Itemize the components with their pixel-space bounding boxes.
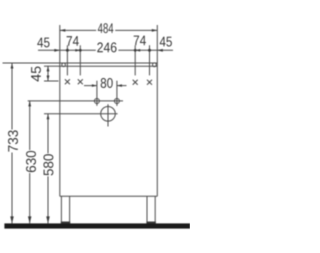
45 vertical top reference line [44,65,60,67]
drain circle [101,107,116,122]
630 label (rotated) [26,151,36,172]
45 vertical top arrow [47,66,50,72]
630 label background [25,150,37,173]
580 bottom arrow [46,216,50,223]
45 vertical bottom reference line [44,80,59,82]
246 label [97,42,116,52]
580 top arrow [47,114,50,120]
mounting cross left inner [78,79,83,84]
484 label [98,23,114,33]
246 label background [96,42,119,53]
tap hole right vertical axis [116,81,118,106]
mounting cross right inner [133,80,138,85]
80 label background [100,78,113,89]
cabinet left edge with extension line [59,25,61,196]
left leg outer line [60,196,62,223]
tap hole left vertical axis [96,81,98,106]
80 right arrow [117,84,122,87]
right corner fixing circle [153,63,157,67]
row2 arrow at right cabinet edge [157,49,163,52]
row2 tick dot 1 [66,49,69,52]
733 label background [7,130,19,153]
484 dimension line [60,29,158,31]
45 right label [160,37,172,47]
733 top arrow [11,63,14,69]
row2 arrow at left cabinet edge [54,49,60,52]
tap hole right circle [114,99,119,104]
45 left label [37,38,49,48]
45 vertical dimension line [47,66,49,81]
580 label (rotated) [43,154,53,175]
cabinet top edge line extended left to 733 dimension [3,62,158,64]
484 label background [96,24,115,34]
row2 tick dot 4 [148,49,151,52]
580 dimension line [47,114,49,224]
sub dimension line 45-74-246-74-45 with outside tails [38,49,173,51]
extension line for tick 74/246 left [79,45,81,75]
80 dimension right segment [117,85,127,87]
horizontal axis through tap holes (630 reference line) [28,100,123,102]
cabinet bottom edge [60,195,158,197]
cabinet right edge with extension line [156,25,158,196]
74 left label [67,36,79,46]
80 dimension left segment [84,85,97,87]
mounting cross right outer [147,80,152,85]
extension line for tick 246/74 right [134,45,136,75]
630 dimension line [29,101,31,223]
630 top arrow [28,101,31,107]
floor bar [4,223,190,228]
630 bottom arrow [28,216,32,223]
right leg foot [146,222,155,224]
mounting cross left outer [65,79,70,84]
row2 arrow pair at tick 2 [75,49,80,52]
tap hole left circle [94,99,99,104]
484 left arrow [60,29,66,32]
733 bottom arrow [10,216,14,223]
row2 tick dot 3 [134,49,137,52]
45 vertical label (rotated) [31,67,41,82]
row2 arrow pair at tick 3 [135,49,140,52]
484 right arrow [152,29,158,32]
left leg foot [61,222,70,224]
45 vertical bottom arrow [47,76,50,82]
733 label (rotated) [8,130,18,151]
74 right label [134,36,146,46]
extension line for tick 74/45 right [149,45,151,75]
cabinet top front-panel line [60,65,158,67]
733 dimension line [11,63,13,223]
drain horizontal axis (580 reference line) [44,113,118,115]
left corner fixing circle [62,63,66,67]
right leg outer line [154,196,156,223]
extension line for tick 45/74 left [66,45,68,75]
80 left arrow [92,84,97,87]
right leg inner line [146,196,148,223]
80 label [101,78,113,88]
drain vertical axis [107,104,109,126]
row2 tick dot 2 [79,49,82,52]
left leg inner line [69,196,71,223]
580 label background [43,153,55,176]
